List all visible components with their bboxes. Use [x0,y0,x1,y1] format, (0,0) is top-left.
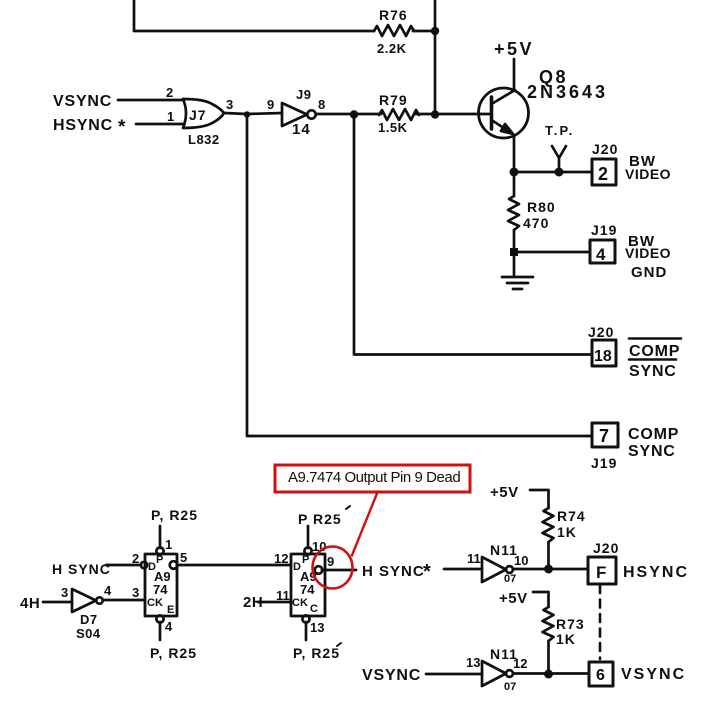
svg-text:J20: J20 [588,324,614,340]
svg-text:470: 470 [523,215,549,231]
svg-text:07: 07 [504,573,516,585]
svg-text:1: 1 [167,109,174,124]
svg-text:A9.7474 Output Pin 9 Dead: A9.7474 Output Pin 9 Dead [288,469,460,486]
svg-text:P R25: P R25 [298,511,342,527]
svg-text:J19: J19 [591,455,617,471]
svg-text:07: 07 [504,681,516,693]
svg-text:P, R25: P, R25 [150,645,197,661]
svg-text:74: 74 [300,582,315,597]
svg-text:4: 4 [165,619,173,634]
svg-text:2: 2 [598,164,608,184]
svg-text:HSYNC: HSYNC [53,117,113,134]
svg-text:2H: 2H [243,594,263,611]
svg-text:+5V: +5V [490,484,519,501]
svg-text:H SYNC: H SYNC [362,563,425,580]
svg-text:VSYNC: VSYNC [362,667,421,684]
svg-text:1.5K: 1.5K [378,120,408,135]
svg-text:9: 9 [267,97,274,112]
svg-text:3: 3 [226,97,233,112]
svg-text:9: 9 [327,554,334,569]
svg-text:R73: R73 [556,616,585,632]
svg-text:VSYNC: VSYNC [53,93,112,110]
svg-text:J20: J20 [593,540,619,556]
svg-text:7: 7 [599,426,609,446]
svg-text:6: 6 [596,667,605,684]
svg-text:74: 74 [153,582,168,597]
svg-text:R76: R76 [379,7,408,23]
svg-text:J19: J19 [591,222,617,238]
svg-text:S04: S04 [76,626,101,641]
svg-text:10: 10 [514,553,528,568]
svg-text:J9: J9 [296,87,311,102]
svg-text:H SYNC: H SYNC [52,561,111,577]
svg-text:VSYNC: VSYNC [621,666,686,683]
svg-text:VIDEO: VIDEO [625,166,671,182]
svg-text:14: 14 [292,121,311,138]
svg-text:5: 5 [180,550,187,565]
svg-text:2N3643: 2N3643 [527,82,608,102]
svg-text:4: 4 [596,245,606,264]
svg-text:R80: R80 [527,199,556,215]
svg-text:8: 8 [318,97,325,112]
svg-text:11: 11 [467,551,481,566]
svg-text:P, R25: P, R25 [293,645,340,661]
svg-text:1K: 1K [556,631,576,647]
svg-text:SYNC: SYNC [628,443,676,460]
svg-text:D7: D7 [80,612,98,627]
svg-text:P: P [156,554,163,566]
svg-text:2.2K: 2.2K [377,41,407,56]
svg-text:*: * [118,117,126,138]
svg-text:4H: 4H [20,595,40,612]
svg-text:12: 12 [274,551,288,566]
svg-text:F: F [596,563,606,582]
svg-text:+5V: +5V [494,39,534,59]
svg-text:C: C [310,603,318,615]
svg-text:2: 2 [132,551,139,566]
svg-text:GND: GND [631,264,667,281]
svg-text:18: 18 [594,348,612,365]
svg-text:13: 13 [466,655,480,670]
svg-text:CK: CK [292,597,308,609]
svg-text:COMP: COMP [629,343,680,360]
svg-text:*: * [423,561,431,583]
svg-text:E: E [167,604,174,616]
svg-text:VIDEO: VIDEO [625,245,671,261]
svg-text:3: 3 [132,585,139,600]
svg-text:P, R25: P, R25 [151,507,198,523]
svg-text:R74: R74 [557,508,586,524]
svg-text:+5V: +5V [499,590,528,607]
svg-text:P: P [302,554,309,566]
svg-text:1K: 1K [557,524,577,540]
svg-text:11: 11 [276,588,290,603]
svg-text:12: 12 [513,656,527,671]
svg-text:J20: J20 [592,141,618,157]
svg-text:SYNC: SYNC [629,363,677,380]
svg-text:T.P.: T.P. [545,123,575,138]
svg-text:2: 2 [166,85,173,100]
svg-text:COMP: COMP [628,426,679,443]
svg-text:1: 1 [165,537,172,552]
svg-text:CK: CK [147,597,163,609]
svg-text:R79: R79 [379,92,408,108]
svg-text:J7: J7 [189,107,207,123]
svg-text:HSYNC: HSYNC [623,564,689,581]
svg-text:3: 3 [61,585,68,600]
svg-text:4: 4 [104,583,112,598]
svg-text:13: 13 [310,620,324,635]
svg-text:L832: L832 [188,132,220,147]
